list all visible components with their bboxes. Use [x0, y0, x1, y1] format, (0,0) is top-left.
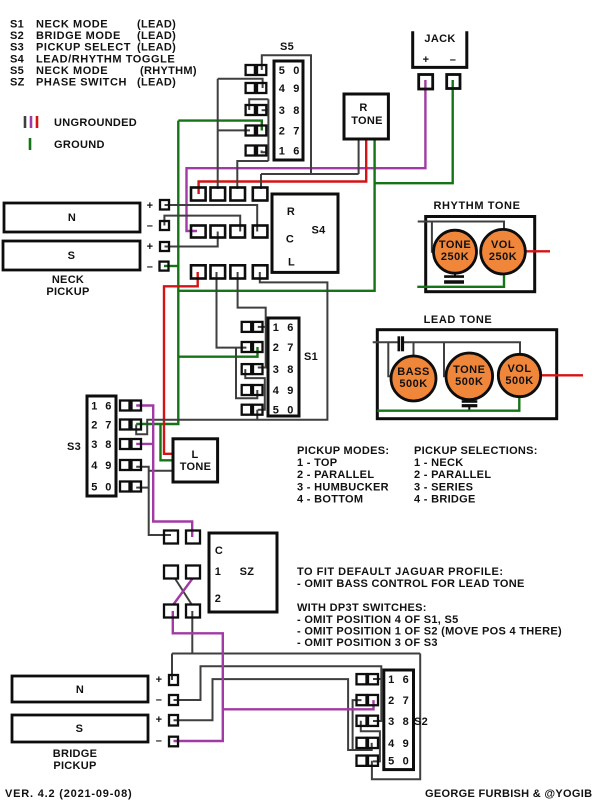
S3 row 4 terminals	[120, 460, 130, 470]
wire S1 5R drop to long run	[256, 410, 258, 420]
svg-text:–: –	[156, 694, 162, 706]
svg-text:PICKUP: PICKUP	[53, 760, 96, 772]
svg-text:250K: 250K	[441, 251, 469, 263]
switch S1 body	[268, 318, 299, 416]
wire red R TONE to S4 R1	[199, 139, 367, 194]
wire S3 4R down to SZ 1L	[136, 467, 171, 535]
svg-text:5: 5	[273, 405, 279, 417]
svg-text:–: –	[147, 220, 153, 232]
svg-text:2: 2	[215, 593, 221, 605]
rhythm tone ground wire	[417, 275, 504, 287]
wire branch to S5 row4 left	[218, 129, 250, 131]
svg-text:+: +	[156, 714, 163, 726]
svg-text:- OMIT POSITION 3 OF S3: - OMIT POSITION 3 OF S3	[297, 637, 438, 649]
svg-text:VOL: VOL	[491, 239, 515, 251]
svg-text:9: 9	[105, 460, 111, 472]
wire green main ground vertical to S3 2R	[136, 121, 178, 424]
rhythm tone output red stub	[525, 250, 550, 252]
S1 row 5 terminals	[242, 405, 252, 415]
svg-text:S4: S4	[311, 225, 326, 237]
svg-text:6: 6	[105, 401, 111, 413]
pot TONE 500K	[446, 353, 493, 400]
S3 row 5 terminals	[120, 482, 130, 492]
svg-text:5: 5	[388, 756, 394, 768]
svg-text:(LEAD): (LEAD)	[137, 30, 176, 42]
S2 row 5 terminals	[357, 756, 367, 766]
lead tone capacitor box L TONE	[173, 439, 218, 482]
wire green branch to S1 2R	[178, 347, 257, 357]
svg-text:N: N	[68, 212, 76, 224]
svg-text:500K: 500K	[399, 378, 427, 390]
svg-text:2 - PARALLEL: 2 - PARALLEL	[297, 469, 374, 481]
svg-text:3: 3	[91, 439, 97, 451]
S3 row 2 terminals	[120, 420, 130, 430]
bridge pickup N coil bar	[12, 676, 148, 702]
svg-text:8: 8	[105, 439, 111, 451]
lead tone output red stub	[541, 374, 583, 376]
wire S1 3L to 5R	[245, 369, 264, 410]
neck pickup terminals	[160, 200, 169, 210]
switch S3 body	[87, 396, 116, 496]
wire green to S5 row4 right	[178, 121, 261, 131]
lead tone top bus wiring	[373, 341, 398, 343]
jack + terminal	[419, 75, 433, 90]
svg-text:7: 7	[287, 342, 293, 354]
svg-text:4: 4	[91, 460, 98, 472]
SZ row 1 terminals	[164, 531, 178, 544]
svg-text:LEAD TONE: LEAD TONE	[424, 314, 493, 326]
svg-text:N: N	[76, 684, 84, 696]
svg-text:- OMIT BASS CONTROL FOR LEAD T: - OMIT BASS CONTROL FOR LEAD TONE	[297, 578, 525, 590]
wire drop to S4 R4	[260, 174, 262, 189]
wire S1 row1 right stub	[258, 326, 266, 328]
svg-text:PHASE SWITCH: PHASE SWITCH	[36, 77, 127, 89]
rhythm tone cap to ground	[454, 271, 456, 276]
svg-text:1: 1	[273, 322, 279, 334]
wire S2 2L jumper	[353, 700, 362, 750]
wire purple S3 3R stub	[136, 443, 153, 445]
svg-text:- OMIT POSITION 4 OF S1, S5: - OMIT POSITION 4 OF S1, S5	[297, 614, 459, 626]
S4 C row terminals	[191, 226, 206, 238]
S1 row 4 terminals	[242, 385, 252, 395]
wire green R TONE pin down to ground bus	[178, 139, 374, 291]
wire S5 row3 left up	[249, 99, 268, 110]
svg-text:1: 1	[388, 674, 394, 686]
S2 row 4 terminals	[357, 738, 367, 748]
svg-text:500K: 500K	[455, 376, 483, 388]
svg-text:LEAD/RHYTHM TOGGLE: LEAD/RHYTHM TOGGLE	[36, 53, 175, 65]
svg-text:PICKUP SELECTIONS:: PICKUP SELECTIONS:	[414, 445, 538, 457]
svg-text:1 - TOP: 1 - TOP	[297, 457, 337, 469]
bridge pickup terminals	[169, 675, 178, 685]
wire S5 row1 loop around switch	[262, 55, 311, 174]
svg-text:RHYTHM TONE: RHYTHM TONE	[433, 200, 520, 212]
svg-text:3: 3	[388, 716, 394, 728]
wire S5/S4 R2 vertical	[217, 79, 219, 189]
svg-text:500K: 500K	[505, 375, 533, 387]
wire S5 row3 right stub	[262, 109, 269, 111]
wire S5 row5 right stub	[262, 151, 269, 153]
S3 row 1 terminals	[120, 401, 130, 411]
S2 row 1 terminals	[357, 674, 367, 684]
svg-text:9: 9	[293, 83, 299, 95]
wire bridge S+ to S2 4R	[174, 679, 372, 750]
svg-text:S: S	[68, 250, 76, 262]
svg-text:NECK: NECK	[52, 274, 84, 286]
svg-text:2: 2	[273, 342, 279, 354]
svg-text:4 - BOTTOM: 4 - BOTTOM	[297, 493, 363, 505]
svg-text:3 - SERIES: 3 - SERIES	[414, 481, 473, 493]
svg-text:7: 7	[403, 695, 409, 707]
svg-text:6: 6	[403, 674, 409, 686]
wire purple branch to S2 2R	[223, 700, 374, 709]
S1 row 2 terminals	[242, 342, 252, 352]
svg-text:5: 5	[91, 482, 97, 494]
wire SZ crossover gray diagonal	[175, 579, 192, 606]
wire green branch to L TONE	[161, 424, 175, 460]
svg-text:6: 6	[287, 322, 293, 334]
lead tone ground wire	[377, 397, 519, 411]
svg-text:8: 8	[293, 105, 299, 117]
jack box	[413, 31, 467, 67]
wire R-net horizontal below S5	[261, 173, 359, 175]
svg-text:TONE: TONE	[180, 461, 212, 473]
SZ row 3 terminals	[164, 605, 178, 618]
bridge pickup S coil bar	[12, 715, 148, 742]
S5 row 4 terminals	[246, 126, 255, 136]
rhythm tone plate box	[426, 217, 535, 292]
svg-text:GEORGE FURBISH & @YOGIB: GEORGE FURBISH & @YOGIB	[425, 788, 592, 800]
pot VOL 250K	[481, 229, 526, 274]
svg-text:4: 4	[388, 738, 395, 750]
svg-text:GROUND: GROUND	[54, 139, 105, 151]
svg-text:0: 0	[403, 756, 409, 768]
S5 row 5 terminals	[246, 146, 255, 156]
pot BASS 500K	[391, 356, 436, 401]
svg-text:S3: S3	[67, 441, 81, 453]
switch SZ body	[209, 533, 277, 612]
svg-text:4 - BRIDGE: 4 - BRIDGE	[414, 493, 476, 505]
legend ungrounded wire colours	[24, 116, 27, 128]
svg-text:NECK MODE: NECK MODE	[36, 19, 108, 31]
lead tone cap to ground	[468, 398, 470, 401]
svg-text:6: 6	[293, 146, 299, 158]
switch S4 body	[272, 194, 338, 272]
svg-text:SZ: SZ	[10, 77, 25, 89]
S2 row 2 terminals	[357, 695, 367, 705]
svg-text:S5: S5	[280, 41, 294, 53]
lead tone series capacitor	[397, 336, 400, 351]
svg-text:S1: S1	[304, 351, 318, 363]
svg-text:S3: S3	[10, 42, 24, 54]
wire loop around S2 to 5R	[372, 654, 420, 780]
wire bridge N- to S2 right column	[174, 666, 382, 721]
svg-text:250K: 250K	[489, 251, 517, 263]
svg-text:+: +	[147, 241, 154, 253]
svg-text:BRIDGE MODE: BRIDGE MODE	[36, 30, 121, 42]
svg-text:BRIDGE: BRIDGE	[53, 748, 98, 760]
svg-text:C: C	[215, 545, 223, 557]
svg-text:S2: S2	[10, 30, 24, 42]
svg-text:7: 7	[293, 126, 299, 138]
S5 row 3 terminals	[246, 105, 255, 115]
svg-text:JACK: JACK	[424, 33, 455, 45]
svg-text:1: 1	[279, 146, 285, 158]
pot VOL 500K	[498, 354, 540, 396]
svg-text:PICKUP SELECT: PICKUP SELECT	[36, 42, 131, 54]
svg-text:VER. 4.2 (2021-09-08): VER. 4.2 (2021-09-08)	[5, 788, 132, 800]
svg-text:3: 3	[273, 364, 279, 376]
svg-text:8: 8	[287, 364, 293, 376]
switch S5 body	[274, 61, 303, 160]
svg-text:2: 2	[91, 420, 97, 432]
svg-text:NECK MODE: NECK MODE	[36, 65, 108, 77]
wire S4 L3 to S1 right column	[238, 272, 266, 368]
rhythm tone capacitor box R TONE	[344, 94, 388, 139]
svg-text:R: R	[359, 102, 367, 114]
wire R TONE gray pin	[358, 139, 360, 174]
S5 row 1 terminals	[246, 65, 255, 75]
wire red S4 L1 to L TONE	[164, 272, 198, 454]
svg-text:1 - NECK: 1 - NECK	[414, 457, 463, 469]
wire purple SZ 3L to bridge S-	[173, 611, 223, 741]
svg-text:L: L	[288, 257, 295, 269]
svg-text:+: +	[147, 200, 154, 212]
wire drop to bridge N+	[171, 654, 173, 681]
svg-text:PICKUP MODES:: PICKUP MODES:	[297, 445, 389, 457]
svg-text:9: 9	[287, 385, 293, 397]
wire S5 to S4 R3	[237, 161, 268, 189]
neck pickup N coil bar	[4, 203, 140, 232]
wire S5 row2 right feed	[218, 79, 263, 88]
wire SZ output horizontal	[172, 653, 420, 655]
svg-text:0: 0	[293, 65, 299, 77]
svg-text:1: 1	[91, 401, 97, 413]
jack - terminal	[447, 75, 460, 89]
wire S2 3L to 5R	[361, 721, 380, 762]
wire S4 L4 long run to S3 2R	[136, 272, 327, 434]
svg-text:–: –	[147, 261, 153, 273]
svg-text:C: C	[286, 234, 294, 246]
svg-text:TONE: TONE	[439, 239, 471, 251]
wire green neck S- stub	[164, 265, 178, 267]
svg-text:VOL: VOL	[507, 363, 531, 375]
svg-text:R: R	[287, 206, 295, 218]
wire purple jack + to S4 C1	[187, 80, 426, 231]
wire L TONE gray pin	[149, 470, 174, 472]
svg-text:BASS: BASS	[397, 366, 430, 378]
svg-text:0: 0	[105, 482, 111, 494]
wire S2 row1 right stub	[373, 678, 381, 680]
S2 row 3 terminals	[357, 716, 367, 726]
switch S2 body	[384, 670, 414, 770]
svg-text:1: 1	[215, 566, 221, 578]
svg-text:7: 7	[105, 420, 111, 432]
svg-text:S: S	[76, 723, 84, 735]
svg-text:WITH DP3T SWITCHES:: WITH DP3T SWITCHES:	[297, 602, 427, 614]
svg-text:2: 2	[279, 126, 285, 138]
pot TONE 250K	[434, 230, 477, 273]
svg-text:(LEAD): (LEAD)	[137, 42, 176, 54]
wire S1 4R jumper	[236, 348, 257, 399]
svg-text:S1: S1	[10, 19, 24, 31]
svg-text:8: 8	[403, 716, 409, 728]
S1 row 3 terminals	[242, 364, 252, 374]
svg-text:TONE: TONE	[351, 115, 383, 127]
svg-text:3 - HUMBUCKER: 3 - HUMBUCKER	[297, 481, 389, 493]
legend ground wire colour	[29, 138, 32, 150]
svg-text:(LEAD): (LEAD)	[137, 77, 176, 89]
wire SZ 3R down	[191, 611, 193, 654]
svg-text:S4: S4	[10, 53, 25, 65]
rhythm tone internal wiring	[418, 222, 504, 232]
svg-text:SZ: SZ	[240, 566, 255, 578]
neck pickup S coil bar	[3, 241, 140, 270]
svg-text:UNGROUNDED: UNGROUNDED	[54, 117, 137, 129]
wire neck N- to S4 C3	[164, 216, 240, 232]
svg-text:0: 0	[287, 405, 293, 417]
S4 L row terminals	[191, 265, 206, 278]
svg-text:(LEAD): (LEAD)	[137, 19, 176, 31]
S3 row 3 terminals	[120, 439, 130, 449]
svg-text:- OMIT POSITION 1 OF S2 (MOVE: - OMIT POSITION 1 OF S2 (MOVE POS 4 THER…	[297, 626, 562, 638]
svg-text:–: –	[156, 735, 162, 747]
svg-text:2 - PARALLEL: 2 - PARALLEL	[414, 469, 491, 481]
svg-text:4: 4	[279, 83, 286, 95]
svg-text:+: +	[423, 54, 430, 66]
SZ row 2 terminals	[164, 566, 178, 579]
wire S4 L2 to S1 2L	[217, 272, 247, 348]
svg-text:L: L	[191, 449, 198, 461]
svg-text:+: +	[156, 674, 163, 686]
svg-text:5: 5	[279, 65, 285, 77]
svg-text:9: 9	[403, 738, 409, 750]
wire SZ crossover purple diagonal	[173, 579, 193, 606]
svg-text:TONE: TONE	[453, 364, 485, 376]
svg-text:PICKUP: PICKUP	[46, 286, 89, 298]
wire neck N+ to S4 C4	[165, 205, 258, 232]
wire purple S3 1R to SZ 1R	[136, 406, 192, 538]
wire neck S+ to S4 C2	[165, 232, 218, 247]
svg-text:S5: S5	[10, 65, 24, 77]
svg-text:3: 3	[279, 105, 285, 117]
svg-text:S2: S2	[414, 716, 428, 728]
S5 row 2 terminals	[246, 83, 255, 93]
wire S3 5R stub	[136, 487, 149, 489]
wire green jack - to R TONE column	[375, 80, 453, 183]
svg-text:4: 4	[273, 385, 280, 397]
svg-text:–: –	[450, 54, 456, 66]
svg-text:2: 2	[388, 695, 394, 707]
svg-text:TO FIT DEFAULT JAGUAR PROFILE:: TO FIT DEFAULT JAGUAR PROFILE:	[297, 566, 503, 578]
S4 R row terminals	[191, 188, 206, 201]
S1 row 1 terminals	[242, 322, 252, 332]
svg-text:(RHYTHM): (RHYTHM)	[140, 65, 197, 77]
lead tone plate box	[377, 330, 556, 419]
wire S5 right-side vertical	[267, 99, 269, 161]
